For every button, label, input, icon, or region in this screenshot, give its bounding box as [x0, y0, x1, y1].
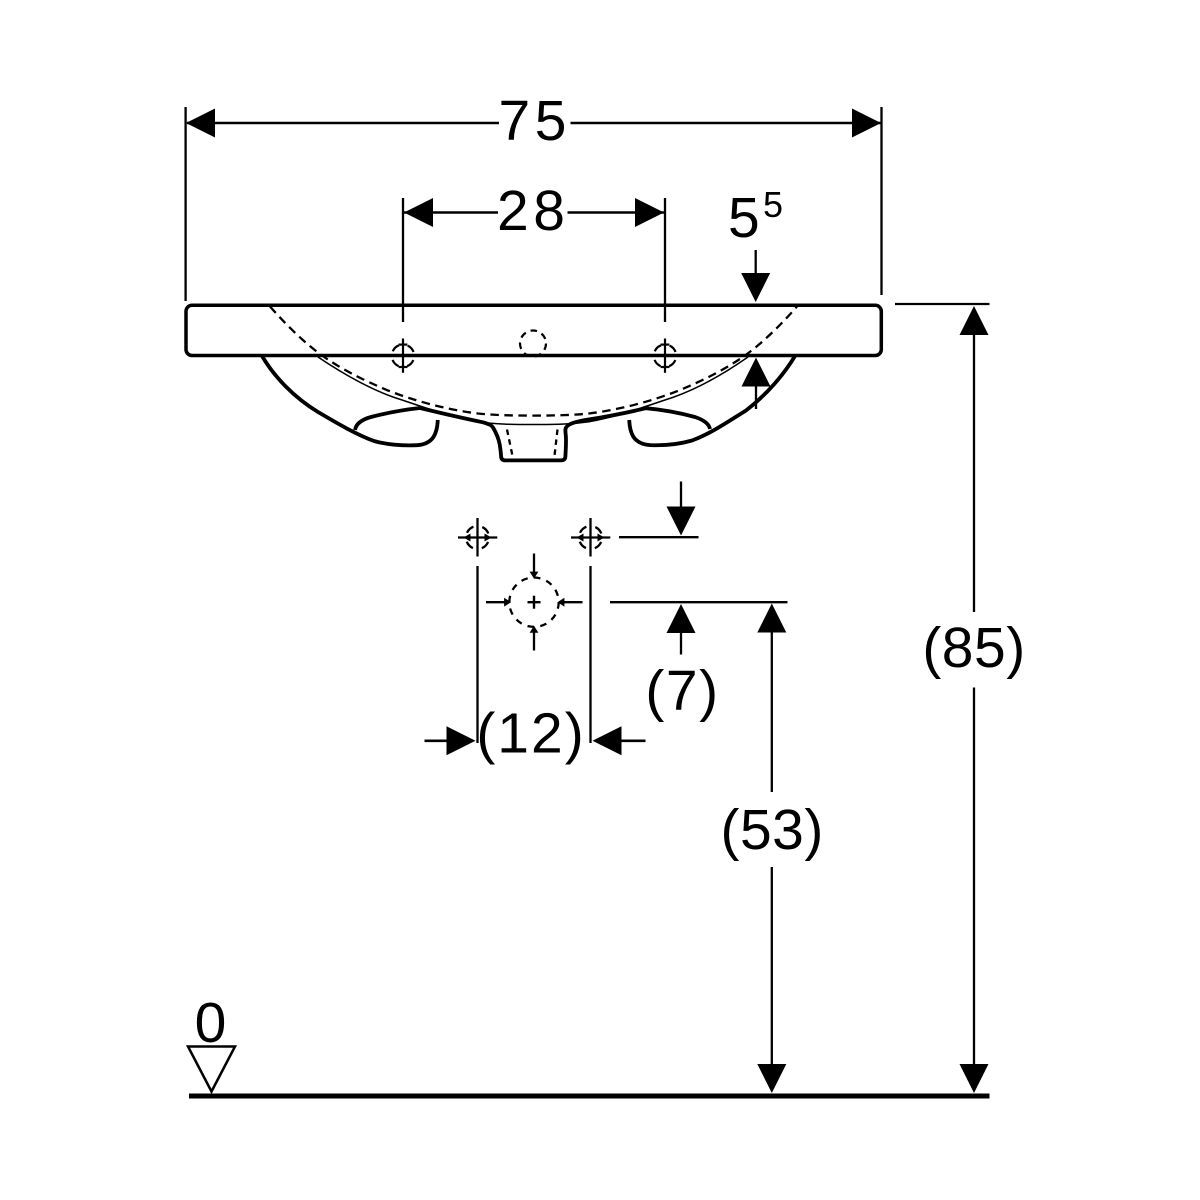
- datum label 0: [195, 991, 227, 1055]
- dimension 7 up arrow: [667, 604, 696, 633]
- waste outlet crosshair top: [533, 554, 535, 573]
- dimension 85 down arrow: [960, 1064, 989, 1093]
- basin front inner edge (thin arc): [318, 357, 748, 425]
- dimension 12 extension line right: [589, 566, 591, 743]
- dimension 53 down arrow: [757, 1064, 786, 1093]
- dimension 28 arrow right: [635, 198, 664, 227]
- svg-text:5: 5: [728, 186, 760, 250]
- svg-text:5: 5: [763, 184, 783, 225]
- datum triangle: [188, 1047, 235, 1092]
- dimension 75 extension line right: [880, 107, 882, 295]
- dimension 75 arrow right: [852, 109, 881, 138]
- tap hole left: [389, 339, 418, 373]
- dimension 85 line upper: [973, 335, 975, 612]
- dimension 7 upper tick: [619, 536, 699, 538]
- dimension 75 arrow left: [186, 109, 215, 138]
- dimension 85 up arrow: [960, 306, 989, 335]
- basin outer profile right: [629, 356, 795, 445]
- dimension 28 arrow left: [404, 198, 433, 227]
- basin outer profile left: [262, 356, 438, 445]
- dimension 28 line: [404, 211, 664, 214]
- basin drain hidden lines (dashed): [507, 430, 558, 459]
- basin hidden back edge (dashed arc): [270, 307, 797, 416]
- water supply connection right: [571, 518, 610, 557]
- dimension label 28: [497, 179, 565, 243]
- dimension label (85): [922, 616, 1025, 680]
- svg-text:75: 75: [499, 89, 567, 153]
- dimension label 75: [499, 89, 567, 153]
- washbasin rim slab: [186, 305, 881, 355]
- dimension 28 extension line left: [402, 198, 404, 322]
- dimension 12 arrow right: [619, 739, 646, 742]
- dimension 28 extension line right: [664, 198, 666, 322]
- waste outlet circle (dashed): [509, 578, 558, 627]
- tap hole right: [651, 339, 680, 373]
- svg-text:(12): (12): [476, 702, 585, 766]
- dimension 12 arrow left: [425, 739, 450, 742]
- dimension label (12): [476, 702, 585, 766]
- waste outlet crosshair right: [564, 601, 583, 603]
- overflow hole (dashed circle): [520, 331, 546, 357]
- dimension 5.5 down arrow: [755, 250, 757, 276]
- dimension 53 up arrow: [757, 604, 786, 633]
- dimension 12 extension line left: [476, 566, 478, 743]
- water supply connection left: [458, 518, 497, 557]
- dimension label 5.5 superscript: [728, 184, 783, 250]
- dimension 5.5 up arrow: [742, 358, 771, 387]
- svg-text:(53): (53): [721, 798, 824, 862]
- dimension 85 line lower: [973, 688, 975, 1067]
- dimension label (7): [645, 659, 719, 723]
- dimension 7 lower tick: [610, 601, 788, 603]
- svg-text:28: 28: [497, 179, 565, 243]
- dimension 75 extension line left: [184, 107, 186, 301]
- waste outlet center plus: [528, 596, 541, 609]
- waste outlet crosshair bottom: [533, 632, 535, 651]
- dimension label (53): [721, 798, 824, 862]
- floor line: [189, 1094, 990, 1099]
- svg-text:(7): (7): [645, 659, 719, 723]
- dimension 7 down arrow: [680, 482, 682, 511]
- waste outlet crosshair left: [486, 601, 505, 603]
- dimension 75 line: [187, 122, 881, 125]
- dimension 53 line upper: [771, 632, 773, 792]
- basin underside hump left and drain and hump right: [355, 408, 710, 460]
- dimension 85 top tick: [895, 303, 990, 305]
- svg-text:(85): (85): [922, 616, 1025, 680]
- dimension 53 line lower: [771, 867, 773, 1066]
